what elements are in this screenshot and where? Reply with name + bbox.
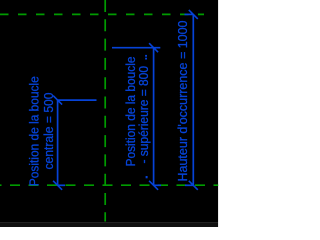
dimension D2 top tick [149, 43, 158, 52]
dimension D3 bottom tick [189, 181, 198, 190]
dimension D2 bottom tick [149, 181, 158, 190]
reference plane top (green dashed horizontal) [0, 13, 204, 15]
right white margin [218, 0, 225, 227]
dimension D2 stray dot upper [145, 55, 147, 57]
dimension D2 stray dot lower [146, 176, 148, 178]
dimension D1 line (centrale) [57, 100, 59, 185]
svg-text:Hauteur d'occurrence = 1000: Hauteur d'occurrence = 1000 [176, 20, 190, 181]
dimension D1 top witness [58, 99, 97, 101]
svg-text:centrale = 500: centrale = 500 [42, 92, 56, 169]
dimension D1 bottom tick [53, 181, 62, 190]
drawing canvas background [0, 0, 218, 223]
svg-text:- supérieure = 800: - supérieure = 800 [137, 66, 151, 164]
dimension D2 bottom witness stub [154, 184, 161, 186]
dimension D2 stray dot upper2 [145, 58, 147, 60]
dimension D2 top witness [112, 47, 160, 49]
dimension D2 line (superieure) [153, 48, 155, 186]
svg-text:Position de la boucle: Position de la boucle [124, 56, 138, 166]
reference plane bottom (green dashed horizontal) [0, 184, 218, 186]
svg-text:Position de la boucle: Position de la boucle [28, 76, 42, 186]
bottom dark band [0, 223, 218, 227]
dimension D1 bottom witness stub [58, 184, 65, 186]
reference plane vertical (green dashed) [104, 0, 106, 222]
dimension D3 top tick [189, 10, 198, 19]
dimension D3 bottom witness stub [185, 184, 193, 186]
dimension D1 top tick [53, 96, 62, 105]
dimension D3 line (hauteur occurrence) [192, 14, 194, 185]
dimension D3 top witness [185, 13, 194, 15]
